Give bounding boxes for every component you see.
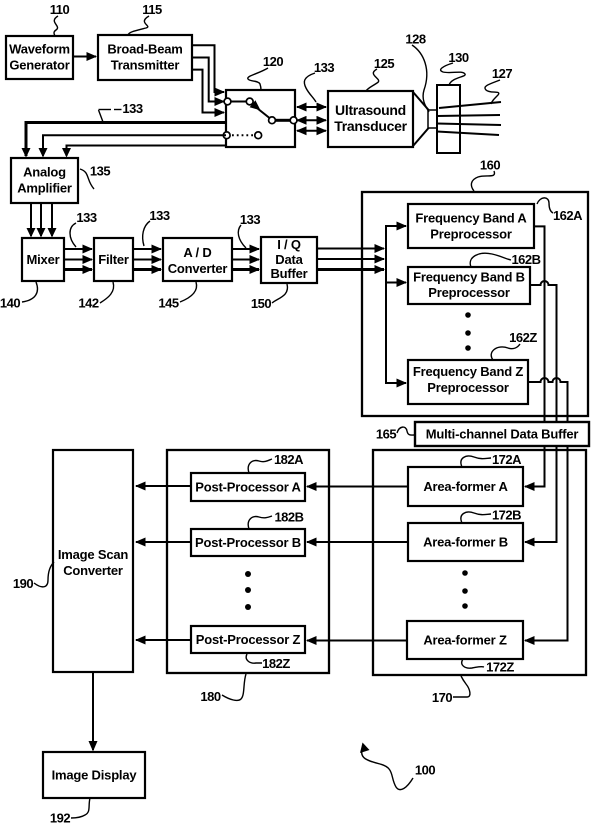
svg-text:Multi-channel Data Buffer: Multi-channel Data Buffer xyxy=(426,427,579,442)
svg-text:172Z: 172Z xyxy=(486,660,514,675)
svg-text:Post-Processor Z: Post-Processor Z xyxy=(196,632,301,647)
leader 115 xyxy=(128,16,149,35)
leader 125 xyxy=(366,69,379,91)
svg-text:145: 145 xyxy=(158,296,178,311)
box: Mixer xyxy=(22,238,64,281)
svg-text:Area-former B: Area-former B xyxy=(423,535,508,550)
switch contact circle 4 xyxy=(290,117,297,124)
svg-text:Data: Data xyxy=(275,252,303,267)
svg-text:I / Q: I / Q xyxy=(277,237,301,252)
svg-text:Post-Processor A: Post-Processor A xyxy=(195,480,301,495)
wire: converter to display xyxy=(92,672,94,750)
leader 135 xyxy=(80,169,94,189)
wires: mixer to filter xyxy=(64,248,92,250)
svg-text:135: 135 xyxy=(90,164,110,179)
box: Waveform Generator xyxy=(6,36,73,79)
svg-text:Amplifier: Amplifier xyxy=(17,181,72,196)
svg-text:165: 165 xyxy=(376,427,396,442)
svg-text:Analog: Analog xyxy=(23,165,66,180)
leader 133 above adc-iq xyxy=(238,225,246,248)
svg-text:140: 140 xyxy=(0,296,20,311)
leader 192 xyxy=(71,798,90,818)
wire: buffer to area-former B xyxy=(525,446,557,542)
leader 160 xyxy=(471,171,494,191)
svg-text:190: 190 xyxy=(13,576,33,591)
box: Filter xyxy=(94,238,133,281)
svg-text:Ultrasound: Ultrasound xyxy=(335,102,406,118)
leader 110 xyxy=(54,16,58,36)
box: Area-former A xyxy=(408,467,523,506)
transducer nose xyxy=(428,110,437,128)
box: Image Display xyxy=(43,752,145,798)
svg-text:110: 110 xyxy=(50,2,70,17)
leader 133 above filter-adc xyxy=(143,221,150,246)
svg-text:182B: 182B xyxy=(274,510,303,525)
wire: buffer to area-former Z xyxy=(525,446,568,641)
leader 172Z xyxy=(462,659,484,668)
wire: transmitter out 3 to switch xyxy=(192,70,224,113)
svg-text:Frequency Band B: Frequency Band B xyxy=(413,270,525,285)
element array bar xyxy=(437,85,460,153)
leader 190 xyxy=(34,562,54,587)
switch contact circle 5 xyxy=(223,132,230,139)
wires: I/Q buffer to preprocessor bus xyxy=(317,248,384,250)
svg-text:170: 170 xyxy=(432,690,452,705)
leader 133 near transducer xyxy=(304,73,316,102)
switch contact circle 1 xyxy=(224,98,231,105)
svg-text:Post-Processor B: Post-Processor B xyxy=(195,535,301,550)
svg-text:150: 150 xyxy=(251,296,271,311)
wire: generator to transmitter xyxy=(73,56,96,58)
svg-text:192: 192 xyxy=(50,811,70,826)
leader 172A xyxy=(461,456,491,467)
big box 170 xyxy=(373,450,586,675)
svg-text:Area-former Z: Area-former Z xyxy=(423,633,507,648)
svg-text:180: 180 xyxy=(200,689,220,704)
wire: switch to amplifier 1 thick xyxy=(26,123,226,157)
transducer horn top xyxy=(413,92,429,111)
arrow 100 xyxy=(362,748,413,790)
box: Multi-channel Data Buffer xyxy=(415,422,589,446)
box: Area-former Z xyxy=(407,621,523,659)
box: Frequency Band B Preprocessor xyxy=(408,267,530,304)
svg-text:Preprocessor: Preprocessor xyxy=(430,227,512,242)
svg-text:133: 133 xyxy=(240,212,260,227)
box: Frequency Band Z Preprocessor xyxy=(408,360,528,404)
switch contact circle 2 xyxy=(246,98,253,105)
leader 133 above mixer xyxy=(70,223,76,247)
box: I/Q Data Buffer xyxy=(261,237,317,283)
wire: switch throw link thick xyxy=(275,119,291,122)
svg-text:Image Display: Image Display xyxy=(52,768,138,783)
wire: post-processor B to converter xyxy=(136,541,191,543)
switch box xyxy=(226,90,295,147)
wire: post-processor Z to converter xyxy=(136,639,191,641)
wire: switch to amplifier 2 xyxy=(43,135,226,156)
leader 142 xyxy=(100,282,114,303)
svg-text:Buffer: Buffer xyxy=(270,266,307,281)
double arrow switch-transducer 1 xyxy=(297,106,326,108)
box: Ultrasound Transducer xyxy=(328,91,413,147)
box: Broad-Beam Transmitter xyxy=(98,35,192,80)
svg-text:162B: 162B xyxy=(511,252,540,267)
svg-text:142: 142 xyxy=(78,296,98,311)
wire: area-former B to post-processor B xyxy=(307,541,408,543)
bus branch B xyxy=(386,270,406,283)
svg-text:115: 115 xyxy=(142,2,162,17)
beam line 3 xyxy=(437,124,501,126)
wire: transmitter out 1 to switch xyxy=(192,45,224,92)
svg-text:120: 120 xyxy=(263,54,283,69)
leader 140 xyxy=(22,282,37,302)
post-processor dots xyxy=(245,571,251,577)
svg-text:128: 128 xyxy=(405,32,425,47)
leader 130 xyxy=(441,63,466,85)
wire: transmitter out 2 to switch xyxy=(192,58,224,102)
svg-text:182A: 182A xyxy=(274,452,304,467)
beam line 4 xyxy=(437,132,499,136)
wire: preprocessor B output down with hop xyxy=(529,281,557,421)
svg-text:Transmitter: Transmitter xyxy=(111,58,180,73)
leader 182B xyxy=(248,516,272,529)
box: Frequency Band A Preprocessor xyxy=(408,204,534,248)
svg-text:160: 160 xyxy=(480,158,500,173)
wire: switch pole link xyxy=(231,101,246,103)
svg-text:A / D: A / D xyxy=(183,245,211,260)
leader 170 xyxy=(453,676,470,697)
svg-text:Frequency Band A: Frequency Band A xyxy=(415,211,527,226)
box: A/D Converter xyxy=(163,238,232,281)
wires: filter to A/D xyxy=(133,248,161,250)
bus branch Z xyxy=(386,270,406,384)
switch contact circle 6 xyxy=(255,132,262,139)
svg-text:162A: 162A xyxy=(553,208,583,223)
area-former dots xyxy=(462,570,468,576)
wire: preprocessor A output down xyxy=(534,226,545,421)
svg-text:Preprocessor: Preprocessor xyxy=(427,380,509,395)
label 133 dash-leader top xyxy=(99,101,143,122)
beam line 2 xyxy=(437,115,500,116)
leader 162Z xyxy=(491,344,520,360)
leader 162B xyxy=(470,253,511,267)
transducer horn bottom xyxy=(413,128,429,147)
wire: amplifier to mixer 3 xyxy=(51,203,53,236)
leader 162A xyxy=(537,198,553,213)
svg-text:125: 125 xyxy=(374,56,394,71)
wire: switch to amplifier 3 xyxy=(67,146,227,157)
svg-text:Preprocessor: Preprocessor xyxy=(428,285,510,300)
svg-text:Filter: Filter xyxy=(98,252,129,267)
double arrow switch-transducer 3 xyxy=(297,130,326,132)
svg-text:100: 100 xyxy=(415,763,435,778)
leader 182A xyxy=(248,459,272,473)
svg-text:Converter: Converter xyxy=(63,563,123,578)
leader 182Z xyxy=(246,654,262,663)
leader 150 xyxy=(272,284,287,303)
wire: preprocessor Z output down with hops xyxy=(528,378,568,421)
svg-text:Mixer: Mixer xyxy=(27,252,60,267)
leader 127 xyxy=(485,80,500,104)
svg-text:133: 133 xyxy=(76,210,96,225)
dotted line lower switch xyxy=(232,134,254,136)
wire: post-processor A to converter xyxy=(136,485,191,487)
svg-text:Broad-Beam: Broad-Beam xyxy=(107,42,182,57)
svg-text:127: 127 xyxy=(492,66,512,81)
svg-text:Frequency Band Z: Frequency Band Z xyxy=(413,364,523,379)
big box 160 xyxy=(362,192,588,416)
double arrow switch-transducer 2 xyxy=(297,119,326,121)
box: Post-Processor Z xyxy=(191,626,305,653)
switch arm with arrow xyxy=(252,104,270,118)
svg-text:133: 133 xyxy=(314,60,334,75)
svg-text:172A: 172A xyxy=(492,452,522,467)
leader 128 long arc xyxy=(412,45,429,112)
svg-text:Waveform: Waveform xyxy=(9,42,70,57)
switch contact circle 3 xyxy=(269,117,276,124)
svg-text:182Z: 182Z xyxy=(262,656,290,671)
box: Image Scan Converter xyxy=(53,450,133,672)
svg-text:Converter: Converter xyxy=(168,261,228,276)
wires: A/D to I/Q buffer xyxy=(232,248,259,250)
wire: amplifier to mixer 2 xyxy=(40,203,42,236)
svg-text:Generator: Generator xyxy=(9,58,69,73)
wire: area-former A to post-processor A xyxy=(307,486,408,488)
svg-text:Image Scan: Image Scan xyxy=(58,547,129,562)
svg-text:172B: 172B xyxy=(492,508,521,523)
box: Post-Processor B xyxy=(191,529,305,556)
wire: area-former Z to post-processor Z xyxy=(307,640,407,642)
svg-text:133: 133 xyxy=(122,101,142,116)
leader 180 xyxy=(222,674,246,700)
preprocessor dots xyxy=(465,312,471,318)
svg-text:Transducer: Transducer xyxy=(334,118,407,134)
svg-text:133: 133 xyxy=(149,208,169,223)
preprocessor input bus xyxy=(386,226,406,270)
leader 165 xyxy=(397,427,414,435)
leader 172B xyxy=(461,512,491,523)
leader 145 xyxy=(180,282,197,302)
big box 180 xyxy=(167,450,329,673)
box: Post-Processor A xyxy=(191,473,305,501)
svg-text:162Z: 162Z xyxy=(509,330,537,345)
wire: amplifier to mixer 1 xyxy=(30,203,32,236)
svg-text:Area-former A: Area-former A xyxy=(423,479,508,494)
box: Area-former B xyxy=(408,523,523,561)
leader 120 xyxy=(248,68,268,90)
box: Analog Amplifier xyxy=(11,158,78,203)
beam line 1 xyxy=(439,102,501,108)
wire: buffer to area-former A xyxy=(525,446,545,487)
